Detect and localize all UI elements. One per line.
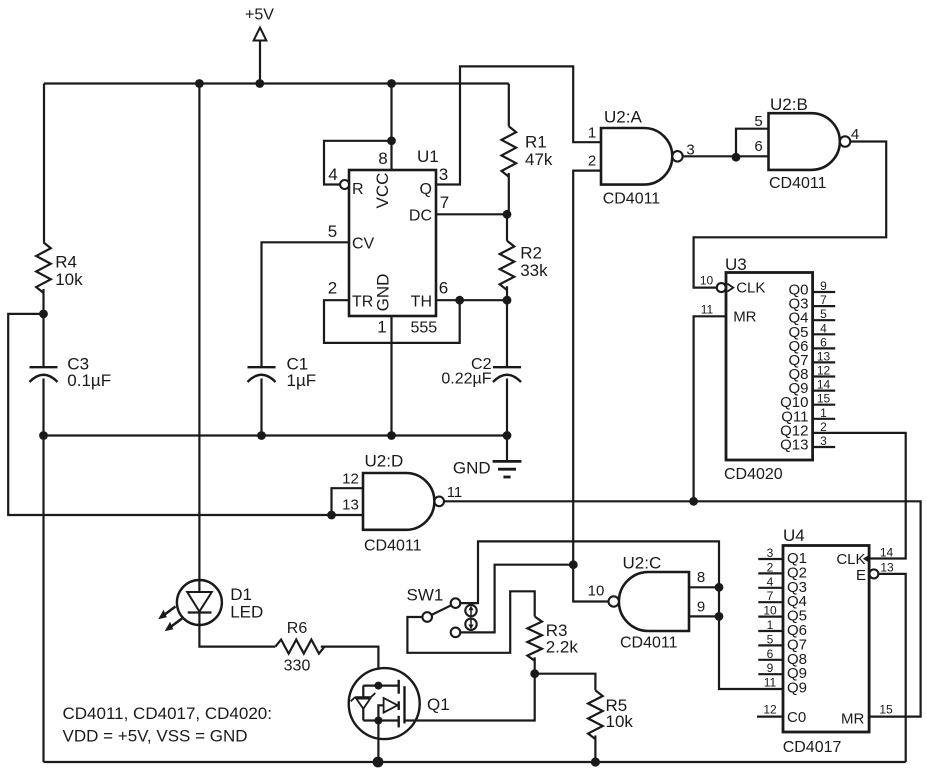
svg-text:10k: 10k <box>606 712 634 731</box>
resistor R3 <box>527 617 542 661</box>
svg-text:14: 14 <box>817 378 831 392</box>
svg-text:U4: U4 <box>783 526 805 545</box>
svg-text:VCC: VCC <box>373 173 392 209</box>
svg-text:6: 6 <box>439 279 448 298</box>
svg-text:R1: R1 <box>525 133 547 152</box>
svg-text:1: 1 <box>377 318 386 337</box>
U4 E pin <box>869 569 878 578</box>
SW1 bottom wire to U2:C out <box>460 565 573 633</box>
resistor R2 <box>500 241 515 290</box>
D1 light arrows <box>164 607 176 616</box>
svg-text:TR: TR <box>352 294 373 311</box>
LED D1 <box>177 580 222 625</box>
wire ground to bottom bus <box>42 436 44 763</box>
svg-text:CD4020: CD4020 <box>724 466 783 483</box>
svg-text:12: 12 <box>817 364 831 378</box>
svg-text:10: 10 <box>588 583 605 600</box>
U1 pin 5 CV wire / C1 top <box>262 242 350 367</box>
U2:A pin2 wire <box>573 171 608 602</box>
svg-text:11: 11 <box>447 484 463 501</box>
node R4/C3/U2:D <box>39 310 48 319</box>
svg-text:D1: D1 <box>230 585 252 604</box>
transistor Q1 <box>349 668 420 739</box>
SW1 arrows <box>465 605 476 616</box>
node TR/TH <box>455 296 464 305</box>
svg-text:1µF: 1µF <box>287 371 317 390</box>
svg-text:CV: CV <box>352 236 375 253</box>
svg-text:12: 12 <box>763 703 777 717</box>
ground <box>506 436 508 462</box>
svg-text:5: 5 <box>820 307 827 321</box>
svg-text:6: 6 <box>754 138 762 155</box>
svg-text:14: 14 <box>880 546 894 560</box>
wire R3 to node <box>534 657 536 673</box>
svg-text:LED: LED <box>230 603 263 622</box>
svg-text:GND: GND <box>453 459 491 478</box>
svg-text:13: 13 <box>342 497 359 514</box>
node ground C1 <box>257 431 266 440</box>
svg-text:MR: MR <box>733 309 756 326</box>
svg-text:Q: Q <box>420 181 432 198</box>
node pin8 loop <box>387 136 396 145</box>
svg-text:R: R <box>352 181 364 198</box>
svg-text:15: 15 <box>879 703 893 717</box>
resistor R6 <box>275 640 324 654</box>
svg-text:15: 15 <box>817 392 831 406</box>
svg-text:9: 9 <box>820 279 827 293</box>
svg-text:33k: 33k <box>520 261 548 280</box>
svg-text:10k: 10k <box>55 270 83 289</box>
svg-text:U3: U3 <box>725 255 747 274</box>
wire LED to R6 <box>199 625 275 647</box>
U3 MR wire <box>694 316 726 501</box>
wire C2 to ground <box>506 379 508 436</box>
svg-text:1: 1 <box>767 618 774 632</box>
U1 pin 8 VCC wire <box>390 84 392 171</box>
U1 TH wire <box>436 299 507 301</box>
svg-text:2: 2 <box>767 560 774 574</box>
svg-text:11: 11 <box>701 303 714 317</box>
svg-text:2.2k: 2.2k <box>546 638 579 657</box>
svg-text:4: 4 <box>328 165 337 184</box>
node junction +5V <box>255 79 264 88</box>
U1 pin 4 bubble <box>340 180 349 189</box>
svg-text:CD4011, CD4017, CD4020:: CD4011, CD4017, CD4020: <box>63 704 272 723</box>
U4 C0 pin <box>757 715 783 717</box>
svg-text:C0: C0 <box>787 709 806 726</box>
resistor R1 <box>501 126 516 177</box>
svg-text:R6: R6 <box>287 620 308 637</box>
svg-text:E: E <box>856 567 866 584</box>
svg-text:8: 8 <box>697 569 705 586</box>
U4 left pins Q1-Q9 <box>758 558 783 560</box>
svg-text:330: 330 <box>284 658 311 675</box>
svg-text:7: 7 <box>440 193 449 212</box>
U1 Q output wire <box>436 66 601 184</box>
svg-text:1: 1 <box>588 125 596 142</box>
svg-text:CLK: CLK <box>736 280 765 297</box>
node ground left <box>39 431 48 440</box>
wire C1 to ground <box>260 379 262 436</box>
node Q1 bottom <box>374 717 382 725</box>
svg-text:U1: U1 <box>417 147 439 166</box>
U2:D output wire to U4 MR <box>444 501 921 716</box>
svg-text:5: 5 <box>328 222 337 241</box>
U2:A output wire <box>683 155 769 157</box>
svg-text:CLK: CLK <box>836 551 865 568</box>
svg-text:0.22µF: 0.22µF <box>441 371 491 388</box>
U1 pin 4 reset loop wire <box>324 141 392 185</box>
U3 CLK wedge <box>727 284 733 292</box>
svg-text:13: 13 <box>817 349 831 363</box>
svg-text:Q9: Q9 <box>787 680 807 697</box>
svg-text:5: 5 <box>767 632 774 646</box>
counter U3 CD4020 box <box>726 273 813 461</box>
svg-text:MR: MR <box>841 711 864 728</box>
node R3/R5/Q1 <box>530 669 539 678</box>
svg-text:3: 3 <box>820 434 827 448</box>
wire +5V to R4 <box>43 84 45 243</box>
svg-text:CD4017: CD4017 <box>783 739 842 756</box>
svg-text:U2:A: U2:A <box>604 108 642 127</box>
svg-text:+5V: +5V <box>245 7 274 24</box>
SW1 top wire to U2:C/U4 <box>460 541 783 689</box>
svg-text:7: 7 <box>820 293 827 307</box>
svg-text:13: 13 <box>880 561 894 575</box>
svg-text:DC: DC <box>409 208 432 225</box>
wire R6 to Q1 <box>321 647 379 686</box>
svg-text:3: 3 <box>767 546 774 560</box>
svg-text:10: 10 <box>700 274 714 288</box>
node TH/R2/C2 <box>503 296 512 305</box>
node U2:D input tie <box>327 511 336 520</box>
svg-text:12: 12 <box>342 471 359 488</box>
resistor R4 <box>36 242 51 292</box>
svg-text:6: 6 <box>767 647 774 661</box>
op-amp U1 555 box <box>349 170 436 316</box>
U3 output pins Q0-Q13 <box>813 291 836 293</box>
node ground U1 pin1 <box>387 431 396 440</box>
wire node to R5 <box>535 674 596 691</box>
node junction pin8 branch <box>387 79 396 88</box>
node ground C2/GND <box>503 431 512 440</box>
svg-text:4: 4 <box>767 575 774 589</box>
counter U4 CD4017 box <box>783 546 869 733</box>
wire node to U2:D inputs <box>8 314 363 515</box>
svg-text:TH: TH <box>411 294 432 311</box>
svg-text:5: 5 <box>754 113 762 130</box>
capacitor C3 <box>30 366 58 368</box>
wire R4 to node <box>42 289 44 314</box>
svg-text:GND: GND <box>374 274 393 312</box>
U3 Q12 wire to U4 CLK <box>813 433 906 559</box>
resistor R5 <box>588 690 603 739</box>
wire R2 to TH node <box>506 286 508 300</box>
U1 TR loop wire <box>324 300 460 343</box>
U2:C input stubs <box>689 586 719 588</box>
node MR/U2:D line <box>689 497 698 506</box>
node U2:C pin9 <box>715 612 724 621</box>
svg-text:Q1: Q1 <box>427 695 450 714</box>
capacitor C1 <box>248 366 276 368</box>
node U2:B input tie <box>732 153 741 162</box>
svg-text:CD4011: CD4011 <box>769 175 827 192</box>
svg-text:11: 11 <box>764 676 777 690</box>
node DC/R1/R2 <box>503 210 512 219</box>
wire DC node to R2 <box>506 214 508 241</box>
svg-text:9: 9 <box>767 661 774 675</box>
svg-text:0.1µF: 0.1µF <box>67 371 111 390</box>
U1 pin 1 GND wire <box>390 316 392 436</box>
svg-text:CD4011: CD4011 <box>603 191 661 208</box>
svg-text:2: 2 <box>588 153 596 170</box>
svg-text:SW1: SW1 <box>407 586 444 605</box>
node Q1 top <box>374 682 382 690</box>
wire TH node to C2 <box>506 300 508 367</box>
svg-text:VDD = +5V, VSS = GND: VDD = +5V, VSS = GND <box>63 727 248 746</box>
wire bus to R1 <box>508 84 510 127</box>
svg-text:Q13: Q13 <box>780 436 808 453</box>
svg-text:U2:D: U2:D <box>365 452 404 471</box>
svg-text:47k: 47k <box>525 150 553 169</box>
U3 CLK bubble <box>717 283 726 292</box>
svg-text:8: 8 <box>378 149 387 168</box>
svg-text:U2:C: U2:C <box>623 554 662 573</box>
node R5/bus <box>591 757 600 766</box>
U1 DC wire <box>436 213 507 215</box>
svg-text:6: 6 <box>820 335 827 349</box>
wire bottom bus <box>44 761 906 763</box>
node SW1/U2:C out <box>569 560 578 569</box>
gate U2:D CD4011 <box>363 473 434 530</box>
svg-text:CD4011: CD4011 <box>620 635 678 652</box>
svg-text:2: 2 <box>328 279 337 298</box>
node U2:C pin8 <box>715 583 724 592</box>
wire R1 to DC node <box>508 173 510 214</box>
gate U2:A CD4011 <box>601 128 672 185</box>
svg-text:3: 3 <box>439 165 448 184</box>
wire node to C3 <box>42 314 44 367</box>
wire Q1 to bottom bus <box>377 721 379 763</box>
svg-text:U2:B: U2:B <box>770 95 808 114</box>
svg-text:CD4011: CD4011 <box>364 538 422 555</box>
node Q1/bus <box>373 757 384 768</box>
svg-text:9: 9 <box>697 599 705 616</box>
SW1 common wire to R3 <box>407 591 534 653</box>
wire C3 to ground bus <box>42 379 44 436</box>
wire +5V to LED <box>198 84 200 581</box>
svg-text:10: 10 <box>763 604 777 618</box>
svg-text:7: 7 <box>767 589 774 603</box>
svg-text:4: 4 <box>820 321 827 335</box>
svg-text:R2: R2 <box>520 244 542 263</box>
U2:D input loop wire <box>332 488 364 515</box>
svg-text:R4: R4 <box>55 253 77 272</box>
wire +5V bus <box>44 82 509 84</box>
wire ground bus <box>44 434 508 436</box>
svg-text:1: 1 <box>820 406 827 420</box>
gate U2:C CD4011 <box>619 572 689 631</box>
wire R5 to bottom bus <box>594 735 596 762</box>
U2:B output wire to U3 CLK <box>694 142 887 288</box>
svg-text:555: 555 <box>411 320 438 337</box>
capacitor C2 <box>493 366 521 368</box>
gate U2:B CD4011 <box>769 113 840 170</box>
wire Q1 output <box>405 674 535 721</box>
node junction LED branch <box>195 79 204 88</box>
U2:B input loop wire <box>736 129 769 158</box>
